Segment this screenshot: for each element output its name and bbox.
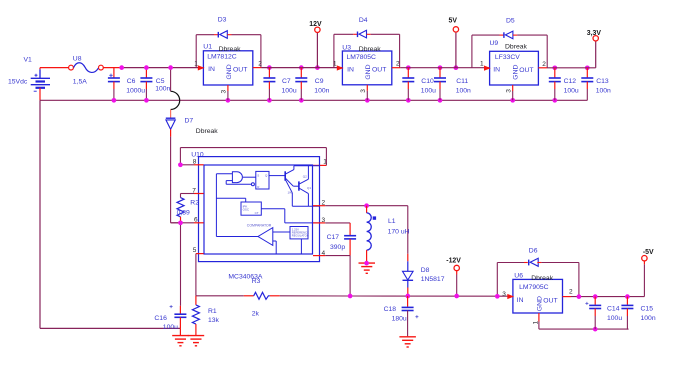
- svg-text:U8: U8: [73, 56, 82, 63]
- node 3,3V output: [593, 36, 598, 68]
- bottom return bus: [40, 99, 587, 101]
- capacitor C16: [170, 305, 187, 335]
- svg-text:OSC: OSC: [243, 208, 250, 212]
- capacitor C18: [402, 296, 419, 336]
- svg-text:1: 1: [480, 61, 484, 68]
- junction dots top bus: [119, 65, 589, 70]
- svg-text:Q2: Q2: [303, 175, 307, 179]
- resistor R1: [192, 296, 199, 335]
- svg-text:OUT: OUT: [372, 67, 386, 74]
- svg-text:LF33CV: LF33CV: [495, 54, 520, 61]
- svg-text:1,5A: 1,5A: [73, 79, 87, 86]
- svg-text:7: 7: [192, 188, 196, 195]
- resistor R2: [177, 198, 184, 223]
- svg-text:5: 5: [193, 247, 197, 254]
- svg-text:100n: 100n: [641, 315, 656, 322]
- svg-text:GND: GND: [512, 65, 519, 80]
- svg-text:3: 3: [221, 90, 228, 94]
- wire D3 loop right: [227, 34, 231, 36]
- capacitor C6: [108, 68, 120, 101]
- wire pin2 out: [563, 296, 572, 298]
- node -12V output: [454, 265, 459, 296]
- svg-text:3,3V: 3,3V: [587, 30, 602, 37]
- svg-text:LM7812C: LM7812C: [207, 54, 237, 61]
- svg-text:100n: 100n: [155, 86, 170, 93]
- wire hop over bus (arc): [171, 91, 180, 109]
- svg-text:U1: U1: [203, 44, 212, 51]
- capacitor C10: [402, 68, 414, 101]
- svg-text:180u: 180u: [392, 315, 407, 322]
- svg-text:C12: C12: [564, 78, 577, 85]
- svg-text:3: 3: [502, 291, 506, 298]
- capacitor C12: [549, 68, 561, 101]
- U10 inner box: [204, 165, 313, 254]
- wire D5 loop right: [513, 34, 517, 36]
- diode D8 1N5817: [403, 254, 414, 296]
- ground under L1: [359, 263, 376, 273]
- wire pin2 rail: [313, 205, 325, 207]
- svg-text:C9: C9: [315, 78, 324, 85]
- svg-text:C11: C11: [456, 78, 468, 85]
- svg-text:5V: 5V: [449, 18, 458, 25]
- svg-text:D7: D7: [185, 118, 194, 125]
- wire pin1 top route: [180, 148, 326, 166]
- svg-text:100u: 100u: [163, 324, 178, 331]
- svg-text:C16: C16: [154, 315, 167, 322]
- fuse U8 1,5A: [40, 63, 103, 73]
- capacitor C9: [295, 68, 307, 101]
- svg-text:100u: 100u: [282, 87, 297, 94]
- junction dots bottom bus: [112, 98, 558, 103]
- svg-text:LM7905C: LM7905C: [519, 284, 549, 291]
- svg-text:1W: 1W: [288, 191, 293, 195]
- svg-text:IN: IN: [493, 66, 500, 73]
- svg-text:C14: C14: [607, 306, 620, 313]
- svg-text:1: 1: [333, 61, 337, 68]
- diode D3 Dbreak: [218, 31, 227, 39]
- wire D6 loop left: [496, 263, 498, 297]
- svg-text:L1: L1: [388, 218, 396, 225]
- op box U9 LF33CV: [484, 51, 538, 85]
- node 12V output: [315, 27, 320, 68]
- svg-text:170 uH: 170 uH: [388, 228, 410, 235]
- svg-text:D6: D6: [529, 247, 538, 254]
- svg-text:U6: U6: [514, 273, 523, 280]
- wire pin2 out: [253, 67, 262, 69]
- diode D7 Dbreak: [166, 118, 176, 136]
- svg-text:390p: 390p: [330, 244, 345, 251]
- svg-text:-12V: -12V: [446, 258, 461, 265]
- svg-text:12V: 12V: [309, 21, 322, 28]
- svg-text:Dbreak: Dbreak: [531, 275, 554, 282]
- svg-text:1: 1: [323, 158, 327, 165]
- svg-text:Dbreak: Dbreak: [196, 128, 219, 135]
- svg-text:U9: U9: [490, 40, 499, 47]
- wire pin7 stub: [194, 193, 204, 195]
- svg-text:0,39: 0,39: [177, 209, 190, 216]
- svg-text:U3: U3: [342, 45, 351, 52]
- ground under R1: [188, 336, 205, 346]
- wire pin5 stub: [196, 253, 204, 255]
- transistor Q2: [298, 181, 300, 190]
- svg-text:-5V: -5V: [643, 249, 654, 256]
- ground under C18: [399, 337, 416, 347]
- wire fuse to C6/junction (red): [103, 67, 121, 69]
- svg-text:CT: CT: [255, 211, 259, 215]
- wire pin2 out: [392, 67, 401, 69]
- svg-text:13k: 13k: [208, 317, 220, 324]
- wire D5 loop left: [471, 35, 473, 68]
- junction dot L1 ground: [364, 261, 369, 266]
- capacitor C5: [140, 68, 152, 101]
- svg-text:U10: U10: [191, 151, 204, 158]
- op-amp U10-comparator: [258, 228, 273, 246]
- svg-text:D4: D4: [359, 17, 368, 24]
- svg-text:OUT: OUT: [519, 67, 533, 74]
- junction dot gnd bus: [593, 327, 598, 332]
- svg-text:GND: GND: [226, 64, 233, 79]
- svg-text:GND: GND: [537, 296, 544, 311]
- internal wire emitters to pin2: [292, 205, 319, 207]
- svg-text:D5: D5: [506, 17, 515, 24]
- diode D5 Dbreak: [504, 31, 513, 39]
- op box U3 LM7805C: [337, 51, 392, 85]
- wire pin3 rail: [313, 222, 325, 224]
- svg-text:100n: 100n: [314, 87, 329, 94]
- inductor L1: [367, 206, 377, 263]
- capacitor C11: [434, 68, 446, 101]
- junction dot L1 top: [364, 203, 369, 208]
- wire D3 loop left: [195, 35, 197, 68]
- svg-text:OUT: OUT: [543, 298, 557, 305]
- node D7 branch from top bus: [170, 68, 172, 92]
- internal tiny labels: [243, 173, 312, 237]
- svg-text:COMPARATOR: COMPARATOR: [247, 224, 272, 228]
- wire D7 down to U10 rail: [170, 137, 172, 223]
- wire gate to oscillator: [215, 174, 217, 237]
- svg-text:OUT: OUT: [233, 67, 247, 74]
- capacitor C17: [344, 223, 356, 256]
- svg-text:100n: 100n: [456, 87, 471, 94]
- svg-text:Q1: Q1: [307, 186, 311, 190]
- wire pin4 rail: [313, 255, 325, 257]
- capacitor C7: [263, 68, 275, 101]
- wire battery negative down left side: [39, 100, 41, 328]
- svg-text:Dbreak: Dbreak: [505, 43, 528, 50]
- wire pin3 down: [366, 85, 368, 91]
- svg-text:3: 3: [360, 89, 367, 93]
- wire across bottom to C16: [40, 327, 180, 329]
- regulator U10-1.25V-reference: [290, 227, 308, 239]
- svg-text:15Vdc: 15Vdc: [8, 79, 28, 86]
- wire pin2 out: [538, 67, 547, 69]
- svg-text:GND: GND: [365, 64, 372, 79]
- transistor Q1: [284, 171, 286, 180]
- svg-text:100n: 100n: [596, 87, 611, 94]
- node 5V output: [453, 27, 458, 68]
- wire pin6 stub: [171, 222, 194, 224]
- svg-text:C6: C6: [127, 78, 136, 85]
- wire gnd bus: [539, 328, 629, 330]
- op box U1 LM7812C: [198, 51, 253, 85]
- wire pin4 down to bus: [349, 256, 351, 296]
- wire pin8 stub: [180, 164, 194, 166]
- svg-text:D3: D3: [218, 17, 227, 24]
- svg-text:IN: IN: [347, 66, 354, 73]
- svg-text:Dbreak: Dbreak: [359, 46, 382, 53]
- svg-text:R1: R1: [208, 308, 217, 315]
- junction dots U6 out: [495, 294, 630, 299]
- svg-text:R2: R2: [190, 199, 199, 206]
- svg-text:C17: C17: [327, 234, 340, 241]
- wire gate feedback: [225, 181, 227, 185]
- capacitor C15: [621, 297, 633, 330]
- wire pin3 down: [227, 85, 229, 91]
- svg-text:D8: D8: [421, 267, 430, 274]
- svg-text:6: 6: [194, 217, 198, 224]
- resistor R3: [254, 292, 270, 299]
- wire D4 loop left: [333, 34, 335, 67]
- svg-text:C5: C5: [156, 78, 165, 85]
- svg-text:100u: 100u: [607, 315, 622, 322]
- op box U6 LM7905C: [507, 279, 562, 313]
- wire pin6 node down to C16: [180, 223, 182, 306]
- wire pin3 down: [512, 85, 514, 91]
- wire D4 loop right: [367, 33, 371, 35]
- diode D4 Dbreak: [358, 30, 367, 38]
- oscillator U10-OSC: [241, 202, 261, 215]
- svg-text:2: 2: [542, 61, 546, 68]
- svg-text:Dbreak: Dbreak: [219, 46, 242, 53]
- wire pin1 gnd: [538, 313, 540, 322]
- U10 internals: [216, 166, 319, 254]
- svg-text:IN: IN: [208, 66, 215, 73]
- svg-text:2: 2: [396, 61, 400, 68]
- svg-text:IN: IN: [517, 297, 524, 304]
- svg-text:1: 1: [194, 60, 198, 67]
- ground under C16: [172, 336, 189, 346]
- svg-text:100u: 100u: [421, 87, 436, 94]
- svg-text:S: S: [257, 173, 259, 177]
- wire D6 loop right: [537, 262, 541, 264]
- svg-text:R3: R3: [252, 278, 261, 285]
- svg-text:V1: V1: [24, 57, 33, 64]
- svg-text:8: 8: [193, 159, 197, 166]
- wire top bus C6 junction to U1 pin1: [122, 67, 199, 69]
- svg-text:1N5817: 1N5817: [421, 276, 445, 283]
- capacitor C14: [585, 297, 601, 330]
- svg-text:R: R: [257, 185, 260, 189]
- svg-text:Q: Q: [265, 173, 268, 177]
- junction dots mid bus: [348, 294, 459, 299]
- capacitor C13: [581, 68, 593, 101]
- internal wire collectors to pin1: [294, 165, 320, 167]
- svg-text:2k: 2k: [252, 311, 260, 318]
- svg-text:LM7805C: LM7805C: [347, 54, 377, 61]
- gate U10-AND: [232, 172, 242, 183]
- svg-text:2: 2: [258, 61, 262, 68]
- svg-text:C7: C7: [282, 78, 291, 85]
- battery V1 (15Vdc source): [31, 68, 50, 101]
- svg-text:C18: C18: [384, 306, 397, 313]
- diode D6 Dbreak: [529, 258, 539, 266]
- svg-text:100u: 100u: [564, 87, 579, 94]
- svg-text:C15: C15: [641, 306, 654, 313]
- svg-text:2: 2: [569, 288, 573, 295]
- svg-text:3: 3: [505, 89, 512, 93]
- svg-text:1000u: 1000u: [126, 87, 145, 94]
- svg-text:C10: C10: [421, 78, 434, 85]
- svg-text:C13: C13: [596, 78, 609, 85]
- latch U10-SR: [256, 171, 269, 189]
- wire mid bottom bus: [196, 295, 508, 297]
- op-amp block U10 outer box: [199, 157, 320, 262]
- node -5V output: [642, 256, 647, 297]
- junction dots U10 left: [178, 162, 183, 225]
- svg-text:REGULATOR: REGULATOR: [292, 234, 309, 238]
